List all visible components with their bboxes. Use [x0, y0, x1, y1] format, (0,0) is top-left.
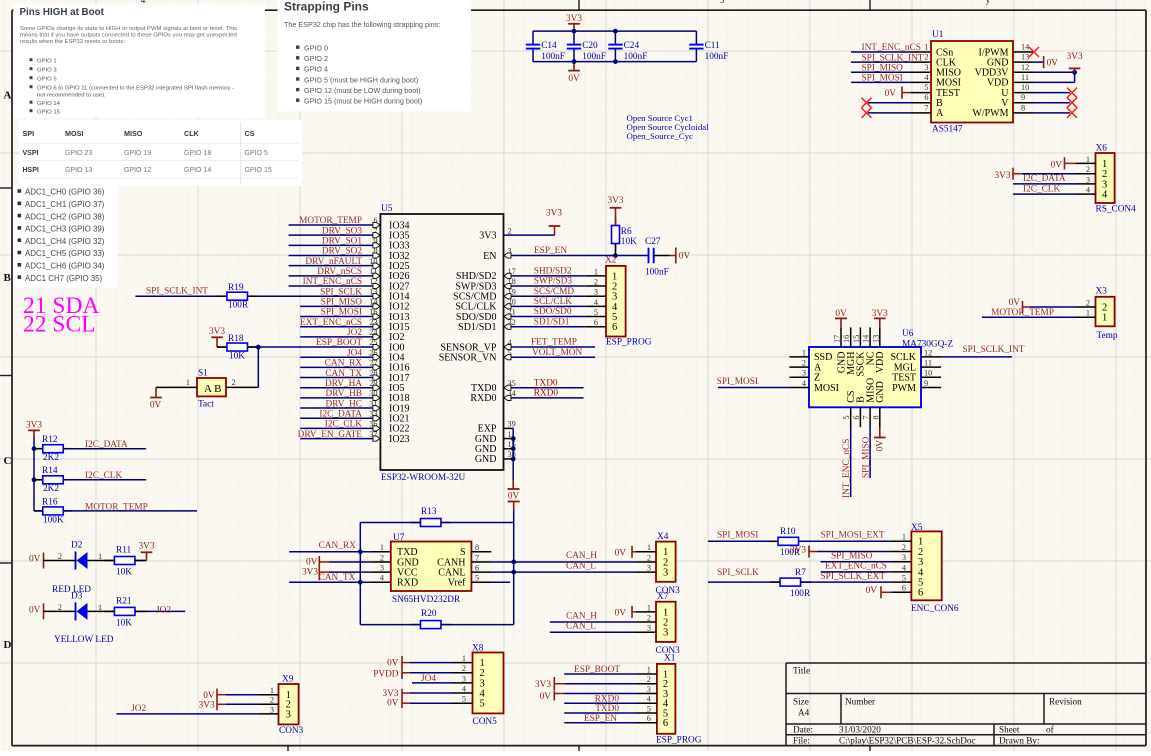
svg-text:3: 3: [270, 705, 274, 714]
svg-text:3V3: 3V3: [546, 209, 562, 219]
svg-text:CS: CS: [245, 129, 255, 138]
svg-text:Temp: Temp: [1097, 331, 1118, 341]
svg-text:2: 2: [902, 543, 906, 552]
svg-text:SHD/SD2: SHD/SD2: [534, 266, 572, 276]
svg-text:PWM: PWM: [892, 383, 916, 394]
svg-text:GPIO 5: GPIO 5: [245, 150, 268, 157]
svg-text:0V: 0V: [568, 74, 580, 84]
svg-text:16: 16: [842, 335, 851, 343]
svg-text:C27: C27: [645, 237, 661, 247]
svg-text:13: 13: [1021, 53, 1029, 62]
svg-text:GPIO 19: GPIO 19: [124, 150, 151, 157]
svg-text:GPIO 12 (must be LOW during bo: GPIO 12 (must be LOW during boot): [304, 86, 421, 95]
svg-text:0V: 0V: [1009, 298, 1021, 308]
svg-text:7: 7: [924, 103, 928, 112]
svg-text:TXD0: TXD0: [534, 378, 558, 388]
svg-text:3V3: 3V3: [479, 230, 496, 241]
svg-text:10: 10: [1021, 83, 1029, 92]
svg-text:Pins HIGH at Boot: Pins HIGH at Boot: [20, 7, 105, 18]
svg-text:10K: 10K: [229, 352, 245, 362]
svg-text:3: 3: [802, 369, 806, 378]
svg-text:10: 10: [924, 369, 932, 378]
svg-text:0V: 0V: [866, 586, 878, 596]
svg-text:14: 14: [862, 334, 871, 343]
svg-text:100R: 100R: [790, 589, 811, 599]
svg-text:MISO: MISO: [124, 129, 143, 138]
svg-text:JO4: JO4: [347, 348, 362, 358]
svg-text:0V: 0V: [1047, 59, 1059, 69]
svg-text:3: 3: [594, 288, 598, 297]
svg-text:JO2: JO2: [156, 606, 171, 616]
svg-text:SPI_MISO: SPI_MISO: [831, 551, 873, 561]
svg-text:MOTOR_TEMP: MOTOR_TEMP: [991, 308, 1054, 318]
svg-text:0V: 0V: [885, 89, 897, 99]
svg-text:1: 1: [647, 665, 651, 674]
svg-text:I2C_DATA: I2C_DATA: [319, 409, 362, 419]
svg-text:10K: 10K: [116, 618, 132, 628]
svg-text:CAN_RX: CAN_RX: [319, 541, 356, 551]
svg-text:C14: C14: [541, 41, 557, 51]
svg-text:of: of: [1046, 725, 1055, 735]
svg-text:3: 3: [663, 628, 668, 639]
svg-text:Strapping Pins: Strapping Pins: [284, 0, 369, 14]
svg-text:31/03/2020: 31/03/2020: [839, 725, 881, 735]
svg-text:CAN_RX: CAN_RX: [325, 359, 362, 369]
svg-text:CLK: CLK: [184, 129, 200, 138]
svg-text:File:: File:: [793, 736, 810, 746]
svg-text:12: 12: [924, 348, 932, 357]
svg-text:B: B: [4, 272, 12, 284]
svg-text:HSPI: HSPI: [23, 167, 39, 174]
svg-text:GPIO 5: GPIO 5: [37, 77, 57, 83]
svg-text:MOTOR_TEMP: MOTOR_TEMP: [299, 216, 362, 226]
svg-text:GND: GND: [475, 454, 497, 465]
svg-text:5: 5: [924, 83, 928, 92]
svg-text:CAN_L: CAN_L: [566, 561, 596, 571]
svg-text:A B: A B: [204, 383, 221, 395]
svg-text:X2: X2: [605, 255, 617, 265]
svg-text:DRV_HA: DRV_HA: [325, 379, 362, 389]
svg-text:A4: A4: [798, 708, 810, 718]
svg-text:2: 2: [58, 603, 62, 612]
svg-text:A: A: [4, 90, 12, 102]
svg-text:YELLOW LED: YELLOW LED: [54, 635, 114, 645]
svg-text:R12: R12: [42, 435, 58, 445]
svg-text:RXD0: RXD0: [470, 393, 496, 404]
svg-text:13: 13: [871, 335, 880, 343]
svg-text:EXT_ENC_nCS: EXT_ENC_nCS: [300, 318, 362, 328]
svg-text:INT_ENC_nCS: INT_ENC_nCS: [842, 439, 852, 498]
svg-text:2: 2: [647, 553, 651, 562]
svg-text:R14: R14: [42, 466, 58, 476]
svg-text:SPI_MOSI_EXT: SPI_MOSI_EXT: [821, 530, 885, 540]
svg-text:SPI_MOSI: SPI_MOSI: [862, 74, 903, 84]
svg-text:RXD0: RXD0: [534, 388, 559, 398]
svg-text:2K2: 2K2: [43, 453, 59, 463]
svg-text:DRV_SO1: DRV_SO1: [322, 237, 362, 247]
svg-text:3: 3: [1086, 175, 1090, 184]
svg-text:0V: 0V: [615, 548, 627, 558]
svg-text:3: 3: [902, 553, 906, 562]
svg-text:3: 3: [286, 709, 291, 720]
svg-text:X5: X5: [911, 523, 923, 533]
svg-text:1: 1: [902, 533, 906, 542]
svg-text:SPI_MOSI: SPI_MOSI: [321, 308, 362, 318]
svg-text:ADC1_CH6 (GPIO 34): ADC1_CH6 (GPIO 34): [25, 262, 105, 271]
svg-text:0V: 0V: [540, 692, 552, 702]
svg-text:8: 8: [871, 416, 880, 420]
svg-text:I2C_CLK: I2C_CLK: [1023, 185, 1060, 195]
svg-text:6: 6: [924, 93, 928, 102]
svg-text:R13: R13: [421, 507, 437, 517]
svg-text:Some GPIOs change its state to: Some GPIOs change its state to HIGH or o…: [20, 26, 237, 32]
svg-text:AS5147: AS5147: [932, 125, 963, 135]
svg-text:DRV_nFAULT: DRV_nFAULT: [305, 257, 362, 267]
svg-text:1: 1: [98, 603, 102, 612]
svg-text:9: 9: [924, 379, 928, 388]
svg-text:22 SCL: 22 SCL: [23, 312, 95, 338]
svg-text:1: 1: [462, 654, 466, 663]
svg-text:3: 3: [924, 63, 928, 72]
svg-text:3: 3: [462, 674, 466, 683]
svg-text:INT_ENC_nCS: INT_ENC_nCS: [862, 43, 921, 53]
svg-text:5: 5: [842, 416, 851, 420]
svg-text:CAN_H: CAN_H: [566, 551, 597, 561]
svg-text:14: 14: [1021, 43, 1030, 52]
svg-text:CON5: CON5: [473, 717, 498, 727]
svg-text:4: 4: [1102, 190, 1108, 201]
svg-text:SN65HVD232DR: SN65HVD232DR: [392, 595, 461, 605]
svg-text:ADC1_CH5 (GPIO 33): ADC1_CH5 (GPIO 33): [25, 249, 105, 258]
svg-text:GPIO 23: GPIO 23: [65, 150, 92, 157]
svg-text:U7: U7: [393, 533, 405, 543]
svg-text:0V: 0V: [306, 558, 318, 568]
svg-text:A: A: [936, 108, 944, 119]
svg-text:R19: R19: [228, 283, 244, 293]
svg-text:ESP_BOOT: ESP_BOOT: [316, 338, 362, 348]
svg-text:X4: X4: [657, 532, 669, 542]
svg-text:SPI_SCLK_EXT: SPI_SCLK_EXT: [821, 572, 886, 582]
svg-text:3V3: 3V3: [790, 546, 806, 556]
svg-text:ESP_EN: ESP_EN: [534, 246, 567, 256]
svg-text:2: 2: [802, 359, 806, 368]
svg-text:ESP_PROG: ESP_PROG: [656, 736, 702, 746]
svg-text:RXD: RXD: [397, 578, 418, 589]
svg-text:GPIO 5 (must be HIGH during bo: GPIO 5 (must be HIGH during boot): [304, 75, 418, 84]
svg-text:GPIO 15: GPIO 15: [245, 167, 272, 174]
svg-text:INT_ENC_nCS: INT_ENC_nCS: [303, 277, 362, 287]
svg-text:0V: 0V: [615, 608, 627, 618]
svg-text:0V: 0V: [1051, 160, 1063, 170]
svg-text:GPIO 4: GPIO 4: [304, 65, 328, 74]
svg-text:SPI_SCLK: SPI_SCLK: [320, 287, 362, 297]
svg-text:3V3: 3V3: [535, 680, 551, 690]
svg-text:10K: 10K: [621, 237, 637, 247]
svg-text:ADC1 CH7 (GPIO 35): ADC1 CH7 (GPIO 35): [25, 274, 103, 283]
svg-text:Tact: Tact: [198, 400, 214, 410]
svg-text:1: 1: [380, 543, 384, 552]
svg-text:DRV_HC: DRV_HC: [326, 399, 362, 409]
svg-text:SPI_MISO: SPI_MISO: [321, 298, 363, 308]
svg-text:9: 9: [1021, 93, 1025, 102]
svg-text:GPIO 6 to GPIO 11 (connected t: GPIO 6 to GPIO 11 (connected to the ESP3…: [37, 86, 234, 92]
svg-text:2: 2: [380, 553, 384, 562]
svg-text:FET_TEMP: FET_TEMP: [531, 338, 577, 348]
svg-text:SPI_MOSI: SPI_MOSI: [717, 377, 758, 387]
svg-text:2: 2: [1086, 298, 1090, 307]
svg-text:ESP_PROG: ESP_PROG: [606, 338, 652, 348]
svg-text:R11: R11: [116, 546, 132, 556]
svg-text:ESP32-WROOM-32U: ESP32-WROOM-32U: [381, 473, 465, 483]
svg-text:X3: X3: [1096, 287, 1108, 297]
svg-text:1: 1: [647, 603, 651, 612]
svg-text:1: 1: [98, 552, 102, 561]
svg-text:5: 5: [480, 699, 485, 710]
svg-text:SPI_SCLK_INT: SPI_SCLK_INT: [862, 53, 924, 63]
svg-text:2: 2: [594, 277, 598, 286]
svg-text:R6: R6: [621, 227, 632, 237]
svg-text:R20: R20: [421, 609, 437, 619]
svg-text:GPIO 12: GPIO 12: [124, 167, 151, 174]
svg-text:Sheet: Sheet: [999, 725, 1020, 735]
svg-text:means that if you have outputs: means that if you have outputs connected…: [20, 33, 237, 39]
svg-text:ADC1_CH3 (GPIO 39): ADC1_CH3 (GPIO 39): [25, 225, 105, 234]
svg-text:R16: R16: [42, 497, 58, 507]
svg-text:2: 2: [58, 552, 62, 561]
svg-text:GPIO 2: GPIO 2: [304, 54, 328, 63]
svg-text:results when the ESP32 resets: results when the ESP32 resets or boots:: [20, 39, 125, 45]
svg-text:CAN_L: CAN_L: [566, 622, 596, 632]
svg-text:SPI_MISO: SPI_MISO: [862, 64, 904, 74]
svg-text:RS_CON4: RS_CON4: [1096, 204, 1137, 214]
svg-text:3: 3: [647, 624, 651, 633]
svg-text:100nF: 100nF: [645, 267, 669, 277]
svg-text:3V3: 3V3: [302, 568, 318, 578]
svg-text:SD1/SD1: SD1/SD1: [458, 322, 496, 333]
svg-text:100nF: 100nF: [705, 52, 729, 62]
svg-text:ADC1_CH0 (GPIO 36): ADC1_CH0 (GPIO 36): [25, 188, 105, 197]
svg-text:GND: GND: [875, 381, 886, 403]
svg-text:2: 2: [232, 378, 236, 387]
svg-text:3V3: 3V3: [209, 327, 225, 337]
svg-text:100nF: 100nF: [582, 52, 606, 62]
svg-text:6: 6: [612, 322, 617, 333]
svg-text:SWP/SD3: SWP/SD3: [534, 277, 573, 287]
svg-text:5: 5: [475, 574, 479, 583]
svg-text:3: 3: [720, 0, 725, 5]
svg-text:3V3: 3V3: [994, 171, 1010, 181]
svg-text:Title: Title: [793, 666, 810, 676]
svg-text:GPIO 0: GPIO 0: [304, 44, 328, 53]
svg-text:R18: R18: [228, 334, 244, 344]
svg-text:JO2: JO2: [347, 328, 362, 338]
svg-text:SPI_MOSI: SPI_MOSI: [717, 530, 758, 540]
svg-text:1: 1: [1102, 313, 1107, 324]
svg-text:W/PWM: W/PWM: [972, 108, 1008, 119]
svg-text:5: 5: [594, 308, 598, 317]
svg-text:U6: U6: [902, 329, 914, 339]
svg-text:ADC1_CH1 (GPIO 37): ADC1_CH1 (GPIO 37): [25, 200, 105, 209]
svg-text:7: 7: [862, 416, 871, 420]
svg-text:2: 2: [647, 613, 651, 622]
svg-text:0V: 0V: [679, 252, 691, 262]
svg-text:100R: 100R: [228, 301, 249, 311]
svg-text:2K2: 2K2: [43, 484, 59, 494]
svg-text:12: 12: [1021, 63, 1029, 72]
svg-text:8: 8: [475, 543, 479, 552]
svg-text:3: 3: [647, 685, 651, 694]
svg-text:EN: EN: [483, 251, 496, 262]
svg-text:6: 6: [852, 416, 861, 420]
svg-text:0V: 0V: [387, 659, 399, 669]
svg-text:2: 2: [462, 664, 466, 673]
svg-text:I2C_DATA: I2C_DATA: [1023, 174, 1066, 184]
svg-text:0V: 0V: [203, 691, 215, 701]
svg-text:10K: 10K: [116, 568, 132, 578]
svg-text:X7: X7: [657, 592, 669, 602]
svg-text:SPI_MISO: SPI_MISO: [861, 436, 871, 478]
svg-text:MOSI: MOSI: [814, 383, 839, 394]
svg-text:0V: 0V: [29, 605, 41, 615]
svg-text:Size: Size: [793, 697, 809, 707]
svg-text:7: 7: [475, 553, 479, 562]
svg-text:2: 2: [647, 675, 651, 684]
svg-text:1: 1: [1086, 155, 1090, 164]
svg-text:100nF: 100nF: [624, 52, 648, 62]
svg-text:U1: U1: [932, 30, 944, 40]
svg-text:R21: R21: [116, 596, 132, 606]
svg-text:2: 2: [924, 53, 928, 62]
svg-text:ADC1_CH2 (GPIO 38): ADC1_CH2 (GPIO 38): [25, 212, 105, 221]
svg-text:SPI: SPI: [23, 129, 35, 138]
svg-text:GPIO 15: GPIO 15: [37, 110, 61, 116]
svg-text:SPI_SCLK_INT: SPI_SCLK_INT: [146, 287, 208, 297]
svg-text:2: 2: [270, 696, 274, 705]
svg-text:CON3: CON3: [279, 726, 304, 736]
svg-text:17: 17: [833, 335, 842, 343]
svg-text:ADC1_CH4 (GPIO 32): ADC1_CH4 (GPIO 32): [25, 237, 105, 246]
svg-text:I2C_CLK: I2C_CLK: [325, 420, 362, 430]
svg-text:Revision: Revision: [1049, 697, 1082, 707]
svg-text:3V3: 3V3: [199, 701, 215, 711]
svg-text:6: 6: [647, 714, 651, 723]
svg-text:11: 11: [1021, 73, 1029, 82]
svg-text:X6: X6: [1096, 143, 1108, 153]
svg-text:39: 39: [508, 420, 516, 429]
svg-text:1: 1: [924, 43, 928, 52]
svg-text:6: 6: [594, 318, 598, 327]
svg-text:DRV_EN_GATE: DRV_EN_GATE: [298, 430, 363, 440]
svg-text:S1: S1: [198, 368, 208, 378]
svg-text:not recommended to use).: not recommended to use).: [37, 93, 106, 99]
svg-text:0V: 0V: [876, 440, 886, 452]
svg-text:6: 6: [475, 564, 479, 573]
svg-text:3V3: 3V3: [1067, 52, 1083, 62]
svg-text:GPIO 13: GPIO 13: [65, 167, 92, 174]
svg-text:Date:: Date:: [793, 725, 813, 735]
svg-text:1: 1: [508, 430, 512, 439]
svg-text:GPIO 3: GPIO 3: [37, 68, 57, 74]
svg-text:U5: U5: [381, 204, 393, 214]
svg-text:D: D: [4, 639, 12, 651]
svg-text:VSPI: VSPI: [23, 150, 39, 157]
svg-text:5: 5: [462, 695, 466, 704]
svg-text:DRV_HB: DRV_HB: [326, 389, 362, 399]
svg-text:0V: 0V: [150, 400, 162, 410]
svg-text:0V: 0V: [29, 554, 41, 564]
svg-text:RED LED: RED LED: [52, 585, 91, 595]
svg-text:VOLT_MON: VOLT_MON: [532, 348, 583, 358]
svg-text:Drawn By:: Drawn By:: [999, 736, 1040, 746]
svg-text:11: 11: [924, 359, 932, 368]
svg-text:5: 5: [902, 574, 906, 583]
svg-text:3: 3: [380, 564, 384, 573]
svg-text:PVDD: PVDD: [373, 669, 399, 679]
svg-text:C20: C20: [582, 41, 598, 51]
svg-text:C:\play\ESP32\PCB\ESP-32.SchDo: C:\play\ESP32\PCB\ESP-32.SchDoc: [839, 736, 976, 746]
svg-text:8: 8: [1021, 103, 1025, 112]
svg-text:CAN_TX: CAN_TX: [325, 369, 362, 379]
svg-text:GPIO 14: GPIO 14: [184, 167, 211, 174]
svg-text:JO2: JO2: [131, 704, 146, 714]
svg-text:C: C: [4, 455, 12, 467]
svg-text:SPI_SCLK_INT: SPI_SCLK_INT: [963, 345, 1025, 355]
svg-text:SPI_SCLK: SPI_SCLK: [717, 568, 759, 578]
svg-text:GPIO 1: GPIO 1: [37, 59, 57, 65]
svg-text:4: 4: [141, 0, 146, 5]
svg-text:y: y: [986, 0, 991, 5]
svg-text:15: 15: [852, 335, 861, 343]
svg-text:IO23: IO23: [389, 434, 410, 445]
svg-text:VDD: VDD: [875, 352, 886, 374]
svg-text:ENC_CON6: ENC_CON6: [911, 604, 959, 614]
svg-text:GPIO 15 (must be HIGH during b: GPIO 15 (must be HIGH during boot): [304, 97, 422, 106]
svg-text:C24: C24: [624, 41, 640, 51]
svg-text:0V: 0V: [508, 491, 520, 501]
svg-text:100nF: 100nF: [541, 52, 565, 62]
svg-text:DRV_SO2: DRV_SO2: [322, 247, 362, 257]
svg-text:R7: R7: [795, 568, 806, 578]
svg-text:GPIO 18: GPIO 18: [184, 150, 211, 157]
svg-text:1: 1: [802, 348, 806, 357]
svg-text:2: 2: [1086, 165, 1090, 174]
svg-text:D2: D2: [71, 541, 83, 551]
svg-text:X8: X8: [472, 644, 484, 654]
svg-text:1: 1: [1086, 309, 1090, 318]
svg-text:100K: 100K: [43, 515, 64, 525]
svg-text:SCS/CMD: SCS/CMD: [534, 287, 575, 297]
svg-text:3: 3: [647, 564, 651, 573]
svg-text:SCL/CLK: SCL/CLK: [534, 297, 573, 307]
svg-text:1: 1: [186, 378, 190, 387]
svg-text:6: 6: [918, 588, 923, 599]
svg-text:6: 6: [902, 584, 906, 593]
svg-text:5: 5: [647, 704, 651, 713]
svg-text:CAN_H: CAN_H: [566, 611, 597, 621]
svg-text:1: 1: [270, 686, 274, 695]
svg-text:3V3: 3V3: [607, 196, 623, 206]
svg-text:3: 3: [663, 568, 668, 579]
svg-text:DRV_SO3: DRV_SO3: [322, 226, 362, 236]
svg-text:GPIO 14: GPIO 14: [37, 101, 61, 107]
svg-text:C11: C11: [705, 41, 721, 51]
svg-text:The ESP32 chip has the followi: The ESP32 chip has the following strappi…: [284, 20, 440, 29]
svg-text:Number: Number: [845, 697, 875, 707]
svg-text:EXT_ENC_nCS: EXT_ENC_nCS: [825, 562, 887, 572]
svg-text:3V3: 3V3: [138, 542, 154, 552]
svg-text:1: 1: [594, 267, 598, 276]
svg-text:0V: 0V: [387, 699, 399, 709]
